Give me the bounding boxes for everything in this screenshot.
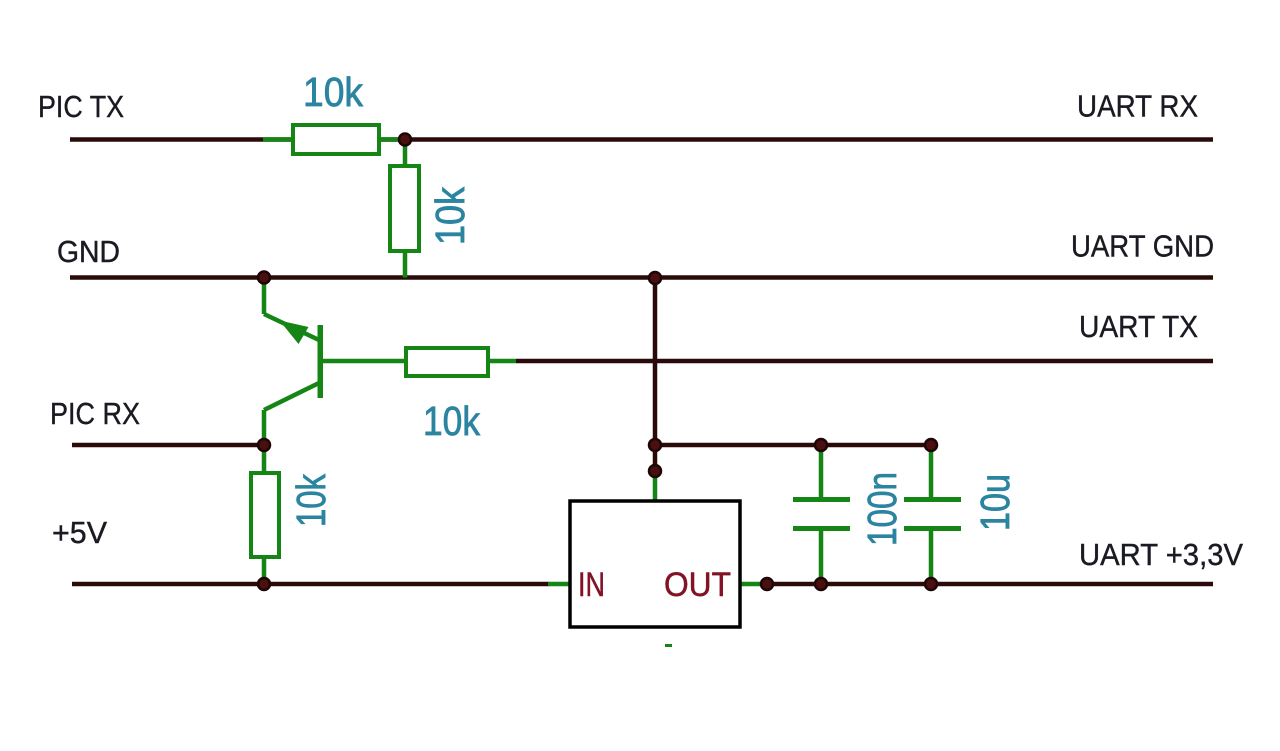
svg-text:GND: GND [57, 234, 120, 269]
svg-text:10k: 10k [423, 398, 480, 444]
svg-text:PIC TX: PIC TX [38, 89, 124, 124]
svg-text:UART GND: UART GND [1071, 229, 1214, 264]
svg-text:IN: IN [578, 566, 605, 604]
svg-text:10k: 10k [427, 187, 473, 245]
svg-text:UART +3,3V: UART +3,3V [1079, 537, 1243, 572]
svg-text:PIC RX: PIC RX [50, 396, 140, 431]
svg-text:10u: 10u [972, 474, 1018, 531]
svg-text:10k: 10k [303, 69, 363, 115]
svg-text:UART TX: UART TX [1079, 309, 1198, 344]
svg-text:OUT: OUT [664, 566, 731, 604]
svg-text:100n: 100n [859, 472, 905, 546]
svg-text:+5V: +5V [52, 515, 107, 550]
svg-text:10k: 10k [288, 474, 334, 527]
svg-text:UART RX: UART RX [1077, 89, 1198, 124]
